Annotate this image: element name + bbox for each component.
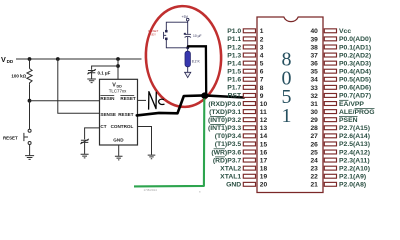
svg-text:17: 17 xyxy=(260,157,268,164)
ground xyxy=(81,154,89,158)
svg-text:P1.5: P1.5 xyxy=(227,69,241,76)
svg-text:P2.1(A9): P2.1(A9) xyxy=(339,174,366,181)
8051 big text xyxy=(282,49,292,127)
wire resistor to ground xyxy=(187,67,189,72)
svg-text:P0.4(AD4): P0.4(AD4) xyxy=(339,69,371,76)
svg-text:GND: GND xyxy=(113,138,124,143)
svg-text:RESET: RESET xyxy=(120,96,136,101)
capacitor 0.1uF xyxy=(87,69,96,78)
pin label Vcc xyxy=(339,28,351,35)
wire switch branch top xyxy=(166,22,187,30)
handwritten NC mark xyxy=(149,92,157,110)
pin 21 box right xyxy=(324,182,336,186)
svg-text:P0.3(AD3): P0.3(AD3) xyxy=(339,60,371,67)
pin label P0.3(AD3) xyxy=(339,60,371,67)
pin 34 box right xyxy=(324,77,336,81)
pin 22 box right xyxy=(324,174,336,178)
pin label P1.0 xyxy=(227,28,241,35)
pin label P1.7 xyxy=(227,85,241,92)
pin label P0.7(AD7) xyxy=(339,93,371,100)
svg-text:13: 13 xyxy=(260,125,268,132)
svg-text:31: 31 xyxy=(310,101,318,108)
svg-text:2: 2 xyxy=(260,36,264,43)
svg-text:P0.5(AD5): P0.5(AD5) xyxy=(339,77,371,84)
pin 10 box left xyxy=(243,102,255,106)
svg-text:TLC77xx: TLC77xx xyxy=(109,88,127,93)
svg-text:RESET: RESET xyxy=(3,135,18,140)
svg-text:1: 1 xyxy=(260,28,264,35)
svg-text:P2.6(A14): P2.6(A14) xyxy=(339,133,370,140)
pin label RST xyxy=(228,93,242,100)
pin 36 box right xyxy=(324,61,336,65)
pin 25 box right xyxy=(324,150,336,154)
svg-text:XTAL1: XTAL1 xyxy=(220,174,241,181)
wire VDD rail xyxy=(16,58,142,60)
pin label P2.0(A8) xyxy=(339,182,366,189)
svg-text:27: 27 xyxy=(310,133,318,140)
svg-text:30: 30 xyxy=(310,109,318,116)
pin label EA/VPP xyxy=(339,100,364,108)
capacitor CT xyxy=(80,139,89,154)
svg-text:(INT1)P3.3: (INT1)P3.3 xyxy=(208,125,241,132)
svg-text:28: 28 xyxy=(310,125,318,132)
pin 30 box right xyxy=(324,110,336,114)
node RESIN junction xyxy=(28,99,32,103)
pin label (RD)P3.7 xyxy=(213,157,242,165)
svg-text:P2.7(A15): P2.7(A15) xyxy=(339,125,370,132)
pin 11 box left xyxy=(243,110,255,114)
wire resistor to RESIN node xyxy=(29,85,31,101)
pin label (T0)P3.4 xyxy=(215,133,242,140)
pin label ALE/PROG xyxy=(339,108,375,116)
svg-text:DD: DD xyxy=(7,59,14,64)
node junction dots on VDD rail xyxy=(28,57,32,61)
svg-text:24: 24 xyxy=(310,157,318,164)
pin 4 box left xyxy=(243,53,255,57)
pin label P2.4(A12) xyxy=(339,149,370,156)
svg-text:37: 37 xyxy=(310,52,318,59)
pin 5 box left xyxy=(243,61,255,65)
svg-text:17/8/2014: 17/8/2014 xyxy=(144,188,158,192)
svg-text:35: 35 xyxy=(310,69,318,76)
wire RESET-bar stub (NC) xyxy=(138,99,147,101)
pin label (RXD)P3.0 xyxy=(208,101,241,108)
svg-text:7: 7 xyxy=(260,77,264,84)
svg-text:3: 3 xyxy=(260,44,264,51)
wire VDD rail to resistor xyxy=(29,59,31,69)
node big junction xyxy=(201,92,208,98)
svg-text:(WR)P3.6: (WR)P3.6 xyxy=(211,149,241,156)
capacitor 10uF xyxy=(184,33,191,47)
svg-text:P2.0(A8): P2.0(A8) xyxy=(339,182,366,189)
svg-text:9: 9 xyxy=(260,93,264,100)
pin label P0.2(AD2) xyxy=(339,52,371,59)
resistor 8.2K blue body xyxy=(185,51,190,67)
svg-text:(RD)P3.7: (RD)P3.7 xyxy=(213,157,242,164)
wire +5V down xyxy=(187,21,189,34)
pin 1 box left xyxy=(243,29,255,33)
svg-text:100 kΩ: 100 kΩ xyxy=(11,73,26,78)
svg-text:P2.5(A13): P2.5(A13) xyxy=(339,141,370,148)
wire chip GND pin xyxy=(118,145,120,156)
svg-text:SENSE: SENSE xyxy=(100,112,116,117)
pin 27 box right xyxy=(324,134,336,138)
pin 35 box right xyxy=(324,69,336,73)
pin 15 box left xyxy=(243,142,255,146)
resistor 100k zigzag xyxy=(27,69,32,85)
pin 37 box right xyxy=(324,53,336,57)
pin label P2.5(A13) xyxy=(339,141,370,148)
wire thick to 8051 RST pin xyxy=(205,95,244,97)
node cap branch xyxy=(116,64,120,68)
pin 13 box left xyxy=(243,126,255,130)
pin 14 box left xyxy=(243,134,255,138)
node RST junction xyxy=(186,46,189,49)
svg-text:P0.1(AD1): P0.1(AD1) xyxy=(339,44,371,51)
pin label PSEN xyxy=(339,116,358,124)
svg-text:32: 32 xyxy=(310,93,318,100)
pin 26 box right xyxy=(324,142,336,146)
svg-text:18: 18 xyxy=(260,166,268,173)
svg-text:12: 12 xyxy=(260,117,268,124)
svg-text:8: 8 xyxy=(260,85,264,92)
pin 31 box right xyxy=(324,102,336,106)
pin 40 box right xyxy=(324,29,336,33)
wire thick RST top branch xyxy=(188,46,206,95)
svg-text:ALE/PROG: ALE/PROG xyxy=(339,109,375,116)
pin label P1.1 xyxy=(227,36,241,43)
pin label P1.3 xyxy=(227,52,241,59)
pin 17 box left xyxy=(243,158,255,162)
pin 7 box left xyxy=(243,77,255,81)
node VDD label xyxy=(1,55,14,64)
svg-text:XTAL2: XTAL2 xyxy=(220,165,241,172)
svg-text:V: V xyxy=(1,55,6,64)
svg-text:CT: CT xyxy=(100,124,106,129)
svg-text:P2.3(A11): P2.3(A11) xyxy=(339,157,370,164)
pushbutton SW1 xyxy=(24,129,31,144)
pin label GND xyxy=(226,182,241,189)
svg-text:0.1 µF: 0.1 µF xyxy=(98,70,111,75)
pin label P2.1(A9) xyxy=(339,174,366,181)
svg-text:16: 16 xyxy=(260,149,268,156)
svg-text:(TXD)P3.1: (TXD)P3.1 xyxy=(209,109,241,116)
svg-text:P1.6: P1.6 xyxy=(227,77,241,84)
pin 24 box right xyxy=(324,158,336,162)
pin label (T1)P3.5 xyxy=(215,141,242,148)
svg-text:RESET: RESET xyxy=(118,112,134,117)
ground xyxy=(148,155,156,159)
svg-text:P1.1: P1.1 xyxy=(227,36,241,43)
pin 29 box right xyxy=(324,118,336,122)
svg-text:PSEN: PSEN xyxy=(339,117,358,124)
svg-text:23: 23 xyxy=(310,166,318,173)
pin label (INT1)P3.3 xyxy=(208,125,241,133)
svg-text:20: 20 xyxy=(260,182,268,189)
pin 32 box right xyxy=(324,93,336,97)
svg-text:KEY: KEY xyxy=(150,33,156,37)
svg-text:(T1)P3.5: (T1)P3.5 xyxy=(215,141,242,148)
svg-text:P1.3: P1.3 xyxy=(227,52,241,59)
ground xyxy=(25,156,34,160)
pin label P2.7(A15) xyxy=(339,125,370,132)
svg-text:P0.7(AD7): P0.7(AD7) xyxy=(339,93,371,100)
pin label P1.5 xyxy=(227,69,241,76)
svg-text:10: 10 xyxy=(260,101,268,108)
svg-text:P1.0: P1.0 xyxy=(227,28,241,35)
svg-text:(T0)P3.4: (T0)P3.4 xyxy=(215,133,242,140)
pin label P2.2(A10) xyxy=(339,165,370,172)
svg-text:6: 6 xyxy=(260,69,264,76)
pin 6 box left xyxy=(243,69,255,73)
pin label P0.0(AD0) xyxy=(339,36,371,43)
pin label P0.6(AD6) xyxy=(339,85,371,92)
svg-text:15: 15 xyxy=(260,141,268,148)
svg-text:P1.7: P1.7 xyxy=(227,85,241,92)
svg-text:33: 33 xyxy=(310,85,318,92)
wire VDD pin xyxy=(117,59,119,79)
pin 39 box right xyxy=(324,37,336,41)
svg-text:(RXD)P3.0: (RXD)P3.0 xyxy=(208,101,241,108)
wire SENSE xyxy=(58,59,100,113)
ground arrow xyxy=(185,72,191,77)
svg-text:GND: GND xyxy=(226,182,241,189)
svg-text:26: 26 xyxy=(310,141,318,148)
pin 19 box left xyxy=(243,174,255,178)
svg-text:(INT0)P3.2: (INT0)P3.2 xyxy=(208,117,241,124)
svg-text:P0.2(AD2): P0.2(AD2) xyxy=(339,52,371,59)
svg-text:1: 1 xyxy=(282,105,292,127)
svg-text:34: 34 xyxy=(310,77,318,84)
pin 3 box left xyxy=(243,45,255,49)
svg-text:P2.2(A10): P2.2(A10) xyxy=(339,165,370,172)
wire CT xyxy=(85,128,100,139)
wire cap branch xyxy=(92,66,118,70)
pin label P0.1(AD1) xyxy=(339,44,371,51)
ground xyxy=(87,79,96,83)
pin label P2.6(A14) xyxy=(339,133,370,140)
svg-text:CONTROL: CONTROL xyxy=(111,124,134,129)
svg-text:11: 11 xyxy=(260,109,267,116)
pin label P1.4 xyxy=(227,60,241,67)
svg-text:RESIN: RESIN xyxy=(100,96,115,101)
pin 9 box left xyxy=(243,93,255,97)
svg-text:40: 40 xyxy=(310,28,318,35)
pin 2 box left xyxy=(243,37,255,41)
pin 28 box right xyxy=(324,126,336,130)
svg-text:P1.4: P1.4 xyxy=(227,60,241,67)
svg-text:38: 38 xyxy=(310,44,318,51)
pin 12 box left xyxy=(243,118,255,122)
red circle annotation xyxy=(144,5,223,108)
ground xyxy=(115,156,123,160)
svg-text:5: 5 xyxy=(260,61,264,68)
svg-text:22: 22 xyxy=(310,174,318,181)
svg-text:4: 4 xyxy=(260,52,264,59)
svg-text:P1.2: P1.2 xyxy=(227,44,241,51)
svg-text:14: 14 xyxy=(260,133,268,140)
pin 20 box left xyxy=(243,182,255,186)
pin 23 box right xyxy=(324,166,336,170)
pin label P2.3(A11) xyxy=(339,157,370,164)
pin 18 box left xyxy=(243,166,255,170)
svg-text:P2.4(A12): P2.4(A12) xyxy=(339,149,370,156)
svg-text:EA/VPP: EA/VPP xyxy=(339,101,364,108)
svg-text:P0.6(AD6): P0.6(AD6) xyxy=(339,85,371,92)
wire CONTROL to ground xyxy=(138,127,152,155)
op-amp U1 TLC77xx supervisor box xyxy=(100,79,138,145)
8051 chip body U2 xyxy=(257,17,323,193)
pin 8 box left xyxy=(243,85,255,89)
wire button to ground xyxy=(29,145,31,156)
pin 16 box left xyxy=(243,150,255,154)
svg-text:29: 29 xyxy=(310,117,318,124)
svg-text:Vcc: Vcc xyxy=(339,28,351,35)
svg-text:19: 19 xyxy=(260,174,268,181)
wire thick reset from TLC77xx xyxy=(137,95,205,115)
pin label P0.5(AD5) xyxy=(339,77,371,84)
pin 38 box right xyxy=(324,45,336,49)
svg-text:25: 25 xyxy=(310,149,318,156)
wire green annotation xyxy=(134,99,204,187)
pin label (INT0)P3.2 xyxy=(208,116,241,124)
svg-text:8.2 K: 8.2 K xyxy=(192,59,201,63)
pin label XTAL2 xyxy=(220,165,241,172)
pin label (WR)P3.6 xyxy=(211,149,241,157)
pin label P0.4(AD4) xyxy=(339,69,371,76)
wire RESIN xyxy=(30,100,100,102)
pin label XTAL1 xyxy=(220,174,241,181)
wire to resistor xyxy=(187,48,189,52)
pin 33 box right xyxy=(324,85,336,89)
pin label P1.2 xyxy=(227,44,241,51)
svg-text:36: 36 xyxy=(310,61,318,68)
svg-text:10 µF: 10 µF xyxy=(193,34,202,38)
svg-text:RST: RST xyxy=(228,93,242,100)
pin label (TXD)P3.1 xyxy=(209,109,241,116)
svg-text:P0.0(AD0): P0.0(AD0) xyxy=(339,36,371,43)
wire to pushbutton xyxy=(29,101,31,130)
svg-text:21: 21 xyxy=(310,182,318,189)
pin label P1.6 xyxy=(227,77,241,84)
svg-text:39: 39 xyxy=(310,36,318,43)
pushbutton reset key xyxy=(164,30,188,47)
